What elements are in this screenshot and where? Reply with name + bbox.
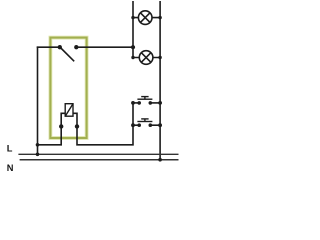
switch S1 blade bbox=[60, 47, 74, 61]
relay coil K1 rectangle bbox=[65, 104, 73, 117]
wire push-button S2 right lead bbox=[150, 102, 160, 104]
wire relay coil to push-button rail bbox=[77, 103, 133, 145]
N bus line bbox=[20, 159, 179, 161]
push-button S2 right contact bbox=[149, 101, 153, 105]
push-button S3 actuator cap bbox=[141, 118, 148, 120]
svg-text:L: L bbox=[7, 143, 13, 153]
wire L feed vertical bbox=[37, 46, 39, 154]
lamp E2 bbox=[139, 51, 153, 65]
node lamp line top junction bbox=[131, 16, 134, 19]
wire push-button S3 left lead bbox=[133, 124, 139, 126]
push-button S2 actuator cap bbox=[141, 96, 148, 98]
node N bus tap bbox=[158, 158, 162, 162]
wire relay coil right pin bbox=[73, 113, 77, 126]
node L feed jog junction bbox=[36, 143, 40, 147]
push-button S3 left contact bbox=[137, 123, 141, 127]
wire lamp E2 horizontal bbox=[133, 57, 160, 59]
node N rail lamp E1 junction bbox=[158, 16, 161, 19]
wire middle lamp line vertical bbox=[132, 1, 134, 58]
relay coil K1 diagonal bbox=[65, 104, 73, 117]
wire N rail vertical bbox=[159, 1, 161, 160]
relay coil left terminal bbox=[59, 124, 63, 128]
enclosure box of impulse relay unit bbox=[50, 38, 86, 138]
wire jog left to relay coil bbox=[38, 126, 62, 144]
wire lamp E1 horizontal bbox=[133, 17, 160, 19]
node N rail lamp E2 junction bbox=[158, 56, 161, 59]
wire push-button S2 left lead bbox=[133, 102, 139, 104]
node switch wire to lamp line junction bbox=[131, 45, 135, 49]
node rail to push-button S2 bbox=[131, 101, 135, 105]
push-button S3 actuator stem bbox=[144, 119, 146, 122]
L bus line bbox=[18, 153, 178, 155]
switch S1 right contact bbox=[74, 45, 78, 49]
relay coil right terminal bbox=[75, 124, 79, 128]
svg-text:N: N bbox=[7, 163, 14, 173]
node N rail to push-button S3 bbox=[158, 123, 162, 127]
push-button S3 right contact bbox=[149, 123, 153, 127]
lamp E1 bbox=[138, 11, 152, 25]
switch S1 left contact bbox=[58, 45, 62, 49]
wire relay coil left pin bbox=[61, 113, 65, 127]
push-button S2 actuator stem bbox=[144, 97, 146, 100]
wire to switch contact left terminal bbox=[37, 46, 60, 48]
push-button S2 left contact bbox=[137, 101, 141, 105]
push-button S2 bridge bar bbox=[137, 98, 152, 100]
node L bus tap bbox=[36, 153, 40, 157]
node N rail to push-button S2 bbox=[158, 101, 162, 105]
push-button S3 bridge bar bbox=[137, 121, 152, 123]
enclosure box of impulse relay unit glow bbox=[50, 38, 86, 138]
wire switch output to lamp node bbox=[76, 46, 133, 48]
node lamp line bottom corner bbox=[131, 56, 134, 59]
node rail to push-button S3 bbox=[131, 123, 135, 127]
wire push-button S3 right lead bbox=[150, 124, 160, 126]
